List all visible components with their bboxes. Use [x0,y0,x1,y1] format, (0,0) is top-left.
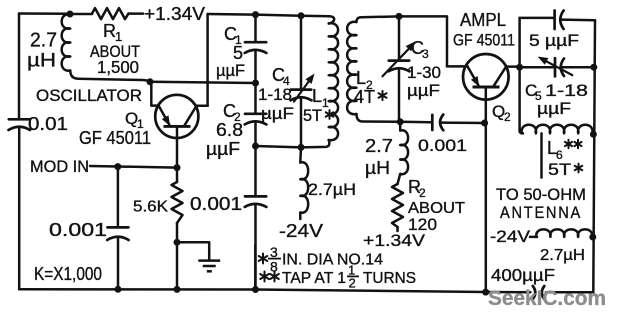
node [482,289,489,296]
svg-text:2.7µH: 2.7µH [540,247,585,264]
wire (+1.34V to collector) [206,14,209,106]
node [590,131,597,138]
inductor 2.7uH (Q2 base) [399,122,402,131]
variable capacitor C5 1-18uuF [520,66,553,69]
wire [208,14,330,16]
node [397,118,404,125]
svg-text:4T: 4T [354,87,375,107]
svg-text:µµF: µµF [216,61,245,80]
capacitor 0.001 (middle) [254,146,257,196]
svg-text:K=X1,000: K=X1,000 [34,264,102,284]
variable capacitor C4 1-18uuF [300,16,303,90]
svg-text:0.001: 0.001 [49,220,107,240]
inductor L1 5T [329,16,334,23]
node [147,78,154,85]
wire [256,146,302,147]
node [252,286,259,293]
svg-text:2: 2 [419,186,426,200]
svg-text:3: 3 [422,47,429,61]
svg-text:2: 2 [349,276,356,291]
wire [18,128,21,289]
note **TAP AT 1-1/2 TURNS [260,272,269,282]
node [115,286,122,293]
inductor 2.7uH (antenna) [530,236,537,239]
svg-text:400µµF: 400µµF [491,265,555,285]
svg-text:GF 45011: GF 45011 [79,128,151,148]
node [252,80,259,87]
svg-text:2.7: 2.7 [30,30,57,52]
svg-text:1: 1 [115,29,122,44]
svg-text:1,500: 1,500 [97,57,139,77]
wire [447,65,468,68]
svg-text:5T: 5T [548,160,571,179]
wire (bottom rail) [19,289,531,292]
svg-text:AMPL: AMPL [460,10,506,30]
capacitor C2 6.8uuF [254,83,257,114]
svg-text:6.8: 6.8 [216,120,243,140]
wire [593,20,595,292]
resistor R1 [70,13,92,16]
inductor 2.7uH (to -24V) [299,147,302,162]
capacitor C1 5uuF [254,15,257,42]
wire [70,71,150,82]
svg-text:0.01: 0.01 [28,114,68,134]
note *3/8 IN. DIA NO.14 [254,245,257,290]
node [174,286,181,293]
wire [19,12,70,15]
svg-text:+1.34V: +1.34V [363,231,426,250]
svg-text:0.001: 0.001 [418,136,467,155]
node [67,11,74,18]
resistor R2 about 120 [398,174,401,184]
svg-text:IN. DIA NO.14: IN. DIA NO.14 [282,252,383,269]
svg-text:TAP AT 1: TAP AT 1 [282,270,346,287]
node [298,12,305,19]
svg-text:µH: µH [365,158,390,178]
svg-text:5.6K: 5.6K [133,199,169,216]
svg-text:-24V: -24V [490,227,531,246]
svg-text:µH: µH [27,51,56,72]
wire [177,242,209,259]
svg-text:2.7: 2.7 [365,136,393,156]
svg-text:TO 50-OHM: TO 50-OHM [496,185,586,204]
svg-text:OSCILLATOR: OSCILLATOR [36,87,142,105]
wire [18,14,21,120]
wire [197,105,208,108]
svg-text:1-30: 1-30 [407,63,441,82]
inductor L2 4T [347,22,356,114]
node [590,64,597,71]
svg-text:L: L [356,68,366,88]
svg-text:L: L [312,86,322,106]
wire [150,82,256,83]
node [396,13,403,20]
node [174,239,181,246]
svg-text:-24V: -24V [279,221,323,241]
svg-text:+1.34V: +1.34V [144,4,205,24]
resistor 5.6K [176,168,179,182]
svg-text:1: 1 [322,96,329,110]
node [481,120,488,127]
node [252,143,259,150]
wire [520,17,553,20]
node [516,64,523,71]
wire [506,65,519,68]
svg-text:µµF: µµF [206,139,240,159]
svg-text:µµF: µµF [407,81,440,100]
svg-text:5T: 5T [303,106,322,125]
svg-text:µµF: µµF [537,99,571,118]
svg-text:SeekIC.com: SeekIC.com [488,286,606,310]
inductor L6 5T [520,131,523,133]
node [174,164,181,171]
capacitor 0.001 (coupling) [400,121,430,124]
wire [399,16,447,66]
inductor 2.7uH (oscillator feedback) [62,14,71,70]
svg-text:5: 5 [233,43,243,63]
node [114,163,121,170]
svg-text:MOD IN: MOD IN [30,157,89,176]
transistor Q1 [155,95,198,138]
transistor Q2 [463,54,509,100]
svg-text:5 µµF: 5 µµF [529,31,579,50]
wire [151,83,158,106]
variable capacitor C3 1-30uuF [398,16,401,60]
node [298,144,305,151]
svg-text:1-18: 1-18 [545,81,588,100]
svg-text:2.7µH: 2.7µH [308,181,356,199]
node [252,11,259,18]
capacitor 0.001 (left) [117,167,120,227]
wire [90,166,177,168]
svg-text:1-18: 1-18 [258,85,292,104]
capacitor 0.01 [9,118,30,121]
capacitor 5uuF [553,11,556,30]
node [589,234,596,241]
svg-text:GF 45011: GF 45011 [453,32,515,50]
svg-text:ANTENNA: ANTENNA [500,203,582,222]
ground [198,259,220,262]
wire (L6 tap) [540,133,543,177]
svg-text:2: 2 [504,110,511,124]
capacitor 400uuF [533,286,536,299]
svg-text:µµF: µµF [261,104,294,123]
svg-text:0.001: 0.001 [190,193,242,214]
wire [518,18,521,131]
svg-text:TURNS: TURNS [363,270,416,287]
